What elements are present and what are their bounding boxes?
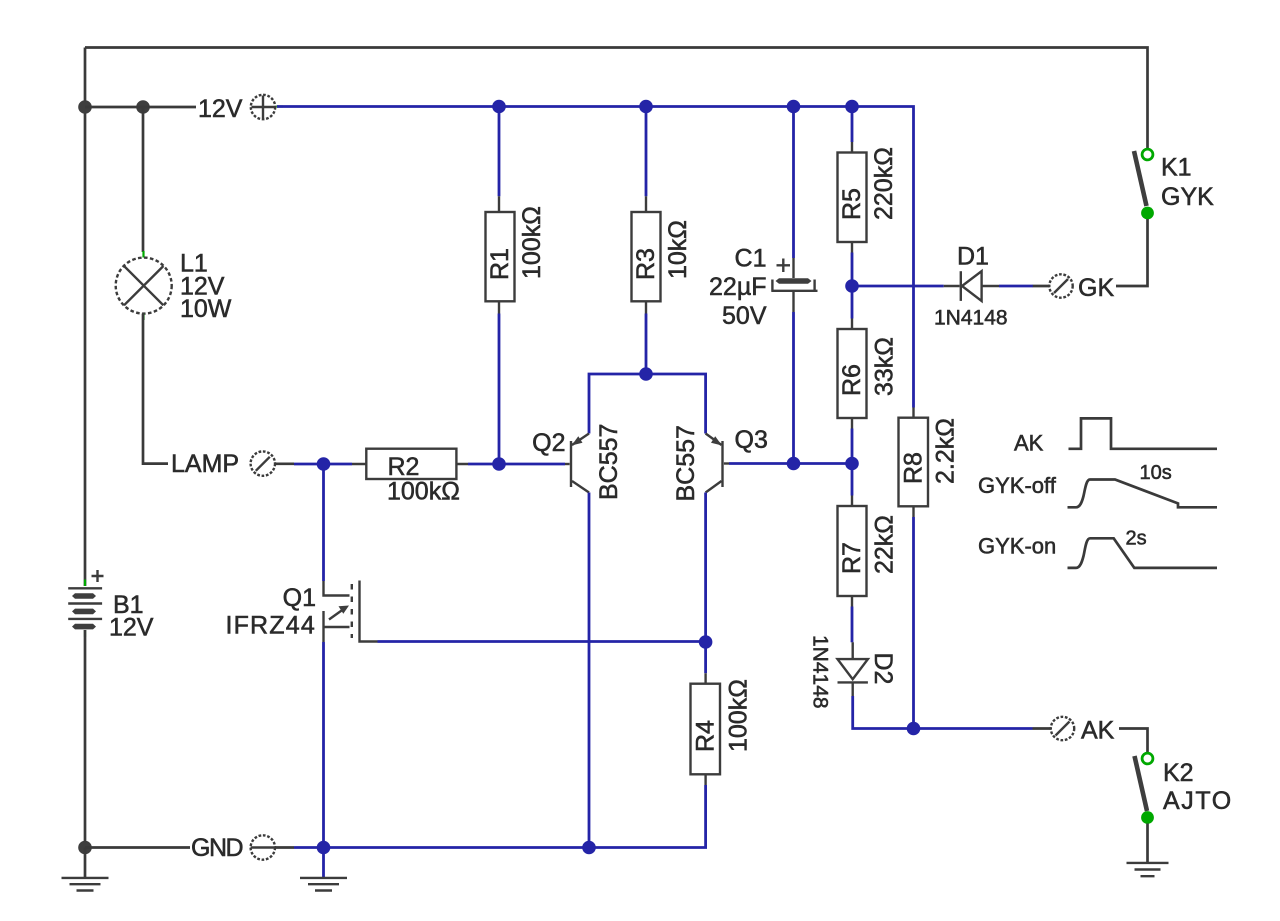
wire K2 to ground bbox=[1146, 824, 1149, 863]
switch K1 bottom contact (green dot) bbox=[1141, 207, 1154, 220]
svg-text:R7: R7 bbox=[838, 542, 866, 574]
wire R5 top bbox=[851, 107, 854, 143]
wire lamp branch down to lamp bbox=[142, 107, 145, 252]
svg-text:100kΩ: 100kΩ bbox=[725, 679, 753, 752]
wire 12V branch bbox=[85, 106, 196, 109]
svg-text:Q3: Q3 bbox=[735, 426, 768, 454]
svg-text:GYK-off: GYK-off bbox=[978, 473, 1057, 498]
ground symbol battery bbox=[62, 878, 109, 891]
wire GK terminal stub left bbox=[1033, 285, 1050, 288]
wire R2 to R1 junction bbox=[468, 463, 499, 466]
junction left rail / 12V branch bbox=[78, 100, 92, 114]
junction R5/R6/D1 bbox=[845, 279, 859, 293]
svg-text:C1: C1 bbox=[735, 245, 767, 273]
pin mark lamp bottom bbox=[142, 314, 144, 320]
ground symbol K2 bbox=[1127, 863, 1169, 876]
wire lamp to LAMP terminal bbox=[143, 314, 168, 464]
junction C1 bottom / Q3 base rail bbox=[787, 457, 801, 471]
wire GND terminal stub bbox=[275, 846, 294, 849]
pin mark battery bottom bbox=[84, 630, 86, 637]
svg-text:220kΩ: 220kΩ bbox=[870, 147, 898, 220]
waveform GYK-on bbox=[1068, 538, 1218, 568]
svg-text:AK: AK bbox=[1014, 431, 1044, 456]
junction C1 top bbox=[787, 100, 801, 114]
wire GND rail gray part bbox=[85, 846, 190, 849]
wire R8 bottom bbox=[912, 517, 915, 729]
resistor R1 bbox=[486, 196, 515, 313]
junction R6/R7 base rail bbox=[845, 457, 859, 471]
junction R3 bottom / emitters bbox=[639, 367, 653, 381]
svg-text:R6: R6 bbox=[838, 364, 866, 396]
svg-text:AK: AK bbox=[1081, 717, 1115, 745]
resistor R6 bbox=[838, 319, 867, 429]
junction R8 bottom / AK rail bbox=[907, 722, 921, 736]
wire emitter rail Q2-Q3 bbox=[589, 374, 706, 434]
wire AK to K2 bbox=[1119, 729, 1148, 753]
wire Q3 base rail bbox=[729, 462, 852, 465]
wire R4 top lead bbox=[704, 642, 707, 673]
junction Q2 collector / GND rail bbox=[582, 841, 596, 855]
junction R5 top bbox=[845, 100, 859, 114]
wire R1 bottom to R2 junction bbox=[498, 314, 501, 465]
resistor R4 bbox=[691, 673, 721, 785]
wire R7 top bbox=[851, 464, 854, 496]
wire Q1 source down to GND rail bbox=[322, 642, 325, 848]
switch K2 blade bbox=[1135, 756, 1148, 811]
svg-text:BC557: BC557 bbox=[595, 424, 623, 500]
battery plate short 3 bbox=[72, 624, 96, 630]
junction Q3 collector / Q1 gate / R4 bbox=[699, 635, 713, 649]
switch K2 bottom contact (green dot) bbox=[1141, 811, 1154, 824]
lamp L1 (circle with X) bbox=[116, 258, 172, 314]
wire R7 bottom to D2 bbox=[851, 607, 854, 643]
wire C1 bottom bbox=[792, 312, 795, 464]
svg-text:BC557: BC557 bbox=[672, 425, 700, 501]
svg-text:GYK: GYK bbox=[1161, 183, 1214, 211]
wire R1 top bbox=[498, 107, 501, 197]
svg-text:GK: GK bbox=[1078, 274, 1114, 302]
terminal LAMP (circle) bbox=[251, 451, 275, 475]
resistor R5 bbox=[838, 142, 867, 253]
svg-text:2.2kΩ: 2.2kΩ bbox=[932, 418, 960, 484]
junction R3 top bbox=[639, 100, 653, 114]
wire C1 top bbox=[792, 107, 795, 259]
wire K1 to GK terminal bbox=[1116, 219, 1148, 286]
wire battery minus down to GND rail bbox=[84, 630, 87, 848]
terminal AK (circle) bbox=[1051, 717, 1074, 740]
battery plate long 3 bbox=[68, 618, 102, 620]
svg-text:D1: D1 bbox=[957, 243, 989, 271]
svg-text:K2: K2 bbox=[1163, 759, 1194, 787]
battery plate short 1 bbox=[72, 593, 96, 599]
wire R5 bottom bbox=[851, 253, 854, 287]
terminal GK (circle) bbox=[1049, 274, 1072, 297]
pin mark lamp top bbox=[142, 251, 144, 258]
svg-text:1N4148: 1N4148 bbox=[809, 635, 832, 709]
ground symbol GND rail bbox=[300, 878, 347, 891]
junction LAMP / Q1 branch bbox=[317, 457, 331, 471]
svg-text:AJTO: AJTO bbox=[1163, 787, 1233, 815]
terminal 12V (circle with cross) bbox=[251, 95, 275, 119]
resistor R8 bbox=[899, 408, 929, 518]
svg-text:Q2: Q2 bbox=[532, 429, 565, 457]
svg-text:22µF: 22µF bbox=[709, 273, 766, 301]
resistor R3 bbox=[632, 196, 661, 313]
wire left rail (battery +) bbox=[84, 48, 87, 587]
svg-text:R8: R8 bbox=[900, 452, 928, 484]
svg-text:Q1: Q1 bbox=[283, 584, 316, 612]
terminal GND (circle with minus) bbox=[251, 835, 275, 859]
svg-text:R5: R5 bbox=[838, 188, 866, 220]
svg-text:50V: 50V bbox=[722, 302, 767, 330]
svg-text:D2: D2 bbox=[869, 653, 897, 685]
capacitor C1 (polarized) bbox=[771, 258, 817, 312]
waveform AK pulse bbox=[1069, 418, 1218, 448]
svg-text:R1: R1 bbox=[486, 248, 514, 280]
wire R6 bottom bbox=[851, 429, 854, 464]
resistor R7 bbox=[838, 496, 867, 607]
svg-text:1N4148: 1N4148 bbox=[934, 307, 1008, 330]
switch K2 top contact (green ring) bbox=[1142, 753, 1153, 764]
svg-text:10kΩ: 10kΩ bbox=[664, 220, 692, 279]
junction R1 top bbox=[492, 100, 506, 114]
svg-text:LAMP: LAMP bbox=[171, 450, 239, 478]
wire R3 top bbox=[645, 107, 648, 197]
wire R3 bottom bbox=[645, 314, 648, 375]
pin mark 12V terminal bbox=[277, 105, 284, 107]
wire Q3 collector down bbox=[704, 493, 707, 643]
svg-text:100kΩ: 100kΩ bbox=[518, 206, 546, 279]
transistor Q1 (IRFZ44 MOSFET) bbox=[324, 581, 378, 643]
svg-text:12V: 12V bbox=[198, 95, 243, 123]
wire GND blue rail bbox=[294, 785, 706, 848]
svg-text:2s: 2s bbox=[1126, 528, 1147, 550]
wire to R2 bbox=[324, 463, 353, 466]
wire LAMP terminal stub bbox=[275, 462, 294, 465]
junction R2 / R1 bottom bbox=[492, 457, 506, 471]
svg-text:R4: R4 bbox=[692, 720, 720, 752]
battery plate long 1 bbox=[68, 587, 102, 589]
transistor Q2 (BC557 PNP) bbox=[565, 434, 589, 493]
wire GND rail ground stub bbox=[322, 848, 325, 878]
wire AK terminal stub left bbox=[1033, 727, 1051, 730]
svg-text:GYK-on: GYK-on bbox=[978, 534, 1056, 559]
switch K1 blade bbox=[1134, 151, 1147, 206]
junction lamp branch bbox=[136, 100, 150, 114]
svg-text:R3: R3 bbox=[632, 248, 660, 280]
svg-text:22kΩ: 22kΩ bbox=[871, 515, 899, 574]
svg-text:K1: K1 bbox=[1161, 154, 1192, 182]
wire Q2 collector down to GND rail bbox=[588, 493, 591, 848]
svg-text:10s: 10s bbox=[1140, 462, 1172, 484]
wire D2 bottom to AK rail bbox=[853, 696, 1033, 729]
diode D1 (1N4148 pointing left) bbox=[944, 271, 999, 301]
battery plus sign bbox=[92, 570, 104, 582]
wire D1 anode from junction bbox=[852, 285, 944, 288]
junction GND terminal branch bbox=[317, 841, 331, 855]
wire D1 to GK terminal bbox=[999, 285, 1033, 288]
wire top rail from battery net to K1 bbox=[85, 48, 1148, 149]
svg-text:10W: 10W bbox=[180, 295, 232, 323]
wire 12V blue rail bbox=[277, 107, 914, 408]
wire R6 top bbox=[851, 286, 854, 319]
wire R2 junction to Q2 base bbox=[499, 463, 565, 466]
wire Q1 gate to R4/Q3 junction bbox=[378, 640, 706, 643]
battery B1 bbox=[68, 570, 103, 637]
diode D2 (1N4148 pointing down) bbox=[838, 642, 868, 696]
svg-text:IFRZ44: IFRZ44 bbox=[225, 612, 316, 640]
battery plate long 2 bbox=[68, 602, 102, 604]
wire LAMP terminal to junction bbox=[294, 463, 324, 466]
svg-text:33kΩ: 33kΩ bbox=[871, 337, 899, 396]
svg-text:GND: GND bbox=[191, 834, 243, 862]
junction battery / GND rail bbox=[78, 841, 92, 855]
resistor R2 (horizontal) bbox=[352, 449, 468, 479]
wire LAMP junction down to Q1 drain bbox=[322, 464, 325, 581]
switch K1 top contact (green ring) bbox=[1142, 149, 1153, 160]
svg-text:100kΩ: 100kΩ bbox=[387, 478, 460, 506]
battery plate short 2 bbox=[72, 609, 96, 615]
transistor Q3 (BC557 PNP mirrored) bbox=[706, 434, 729, 493]
svg-text:12V: 12V bbox=[109, 614, 154, 642]
label C1 plus bbox=[777, 259, 791, 273]
pin mark battery top bbox=[84, 580, 86, 587]
wire battery ground stub bbox=[84, 848, 87, 878]
waveform GYK-off bbox=[1068, 480, 1218, 508]
